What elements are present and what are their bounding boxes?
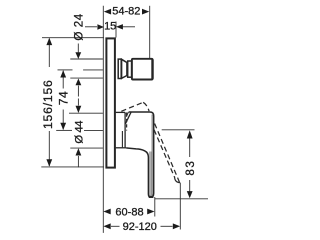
- wire tick spout bottom: [70, 77, 103, 79]
- dashed hub vertical: [126, 114, 128, 131]
- wire dim line d44: [77, 99, 79, 106]
- arrowhead 54-82 left: [104, 9, 111, 15]
- arrowhead 156 top: [46, 38, 52, 45]
- wire dim line 83: [189, 139, 191, 158]
- wire tick 83 top: [162, 129, 195, 131]
- arrowhead d24 bottom: [76, 79, 82, 86]
- arrowhead 92-120 left: [103, 223, 110, 229]
- spout cylinder: [132, 59, 153, 80]
- wire dim line 74: [62, 71, 64, 89]
- lever grip bottom thick: [149, 196, 154, 198]
- handle hub notch: [126, 112, 128, 115]
- dashed lever left edge: [154, 130, 175, 178]
- dashed lever tip arc: [175, 177, 181, 183]
- wire tick hub center: [56, 129, 72, 131]
- svg-text:156/156: 156/156: [41, 79, 55, 129]
- wire wall extension line: [102, 6, 104, 233]
- wire lever-right extension line: [154, 197, 156, 217]
- arrowhead 83 bottom: [187, 191, 193, 198]
- lever grip gray fill: [149, 152, 152, 197]
- wire tick hub bottom: [70, 147, 103, 149]
- arrowhead d24 top: [75, 52, 81, 59]
- spout ring 2: [128, 61, 132, 77]
- arrowhead 60-88 right: [147, 209, 154, 215]
- wire dim tail 92-120 right: [161, 225, 173, 227]
- dashed lever right edge: [155, 124, 180, 183]
- wire spout-end extension line: [149, 6, 151, 59]
- svg-text:54-82: 54-82: [112, 6, 140, 18]
- wire dim line d24: [77, 44, 79, 53]
- wire dim line 156/156: [48, 39, 50, 68]
- svg-text:83: 83: [184, 160, 197, 176]
- arrowhead 74 bottom: [60, 123, 66, 130]
- arrowhead 54-82 right: [142, 9, 149, 15]
- wire dim tail 15 right: [122, 26, 135, 28]
- arrowhead d44 bottom: [76, 148, 82, 155]
- handle hub slant: [125, 112, 131, 124]
- wire tick hub top: [69, 112, 103, 114]
- wire tick lever bottom: [155, 198, 209, 200]
- arrowhead 74 top: [60, 70, 66, 77]
- handle hub left edge: [124, 113, 126, 148]
- dashed hub top line: [121, 102, 143, 111]
- wire dim tail 15 left: [85, 26, 97, 28]
- svg-text:Ø 24: Ø 24: [73, 13, 86, 41]
- svg-text:Ø 44: Ø 44: [73, 121, 85, 144]
- arrowhead 15 right: [116, 24, 123, 29]
- wire tick plate top: [42, 37, 104, 39]
- svg-text:60-88: 60-88: [115, 206, 143, 218]
- svg-text:15: 15: [104, 21, 116, 33]
- escutcheon plate: [106, 38, 115, 167]
- lever outline: [126, 112, 154, 197]
- handle hub top line: [116, 111, 125, 113]
- arrowhead 156 bottom: [46, 159, 52, 166]
- arrowhead 15 left: [97, 24, 104, 29]
- wire dashed-tip extension line: [179, 183, 181, 230]
- wire tick spout centerline: [58, 69, 73, 71]
- dashed lever top curve: [143, 102, 149, 111]
- wire tick spout top: [70, 58, 103, 60]
- wire tick plate bottom: [41, 166, 104, 168]
- wire plate-right extension line: [115, 22, 117, 38]
- arrowhead d44 top: [76, 106, 82, 113]
- spout taper: [122, 59, 127, 78]
- arrowhead 83 top: [187, 130, 193, 138]
- arrowhead 92-120 right: [173, 223, 180, 229]
- spout flange ring: [118, 59, 121, 78]
- spout cylinder right edge: [151, 60, 153, 79]
- wire dim tail 92-120 left: [111, 225, 120, 227]
- lever inner right line: [151, 115, 153, 196]
- handle hub bottom: [116, 147, 126, 149]
- svg-text:74: 74: [56, 91, 70, 106]
- handle hub inner line: [121, 131, 123, 147]
- svg-text:92-120: 92-120: [123, 221, 157, 233]
- arrowhead 60-88 left: [103, 209, 110, 215]
